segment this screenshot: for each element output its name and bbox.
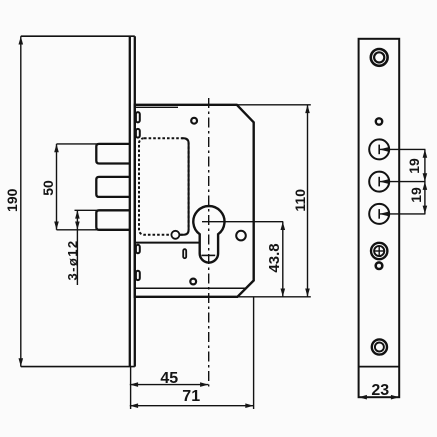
bolt hole H1 centre arrow bbox=[379, 147, 388, 152]
small hole upper bbox=[376, 118, 382, 124]
keyhole ring with cross outer bbox=[371, 243, 387, 259]
dimension 43.8 bottom arrow bbox=[281, 289, 286, 297]
bolt hole H1 centre line bbox=[379, 148, 425, 150]
keyhole ring with cross inner bbox=[374, 246, 384, 256]
small slot near cylinder bbox=[183, 249, 186, 258]
dimension 190 line bbox=[20, 36, 22, 366]
right extension line below case bbox=[253, 297, 255, 409]
lock case inner top line bbox=[136, 106, 178, 108]
bolt tab B1 bbox=[96, 144, 130, 164]
screw hole bottom bbox=[190, 279, 196, 285]
dashed inner box solid right edge bbox=[180, 138, 189, 235]
bolt hole H3 bbox=[369, 204, 389, 224]
top extension line bbox=[21, 35, 135, 37]
faceplate strip right edge bbox=[134, 36, 136, 366]
dimension 23 right arrow bbox=[391, 395, 399, 400]
small hole below keyhole bbox=[376, 262, 383, 269]
dimension 43.8 line bbox=[282, 222, 284, 297]
vertical centreline (dash-dot) bbox=[208, 98, 210, 387]
ring hole top inner bbox=[374, 52, 384, 62]
screw hole top bbox=[191, 118, 197, 124]
case lug L2 bbox=[136, 129, 140, 138]
dimension 45 line bbox=[130, 384, 209, 386]
dimension 19 top arrow bbox=[423, 149, 428, 157]
dimension 19 middle arrows bbox=[423, 173, 428, 181]
svg-text:23: 23 bbox=[371, 382, 389, 399]
bolt tab B2 bbox=[96, 177, 130, 197]
lock case bottom edge extension to 110 dim bbox=[237, 296, 310, 298]
case lug L1 bbox=[136, 112, 140, 122]
bolt hole H2 centre arrow bbox=[379, 179, 388, 184]
screw hole right bbox=[236, 231, 246, 241]
dimension 50 line bbox=[56, 144, 58, 230]
svg-text:71: 71 bbox=[182, 388, 200, 405]
dimension 71 right arrow bbox=[245, 403, 253, 408]
dashed inner box bbox=[139, 138, 189, 235]
faceplate strip left edge bbox=[129, 36, 131, 366]
bolt tab B3 top edge extension to leader bbox=[75, 209, 100, 211]
keyhole cross horizontal bbox=[374, 250, 384, 252]
dimension 45 right arrow bbox=[200, 382, 208, 387]
left extension line below faceplate bbox=[130, 367, 132, 409]
bolt hole H2 bbox=[369, 172, 389, 192]
ring hole bottom inner bbox=[375, 343, 384, 352]
leader 3-d12 down arrow bbox=[75, 222, 80, 230]
case lug L3 bbox=[136, 245, 140, 254]
case lug L4 bbox=[136, 271, 140, 280]
dimension 190 bottom arrow bbox=[19, 358, 24, 366]
bolt hole H3 centre arrow bbox=[379, 212, 388, 217]
dimension 71 left arrow bbox=[130, 403, 138, 408]
side plate divider line bbox=[359, 366, 400, 368]
svg-text:19: 19 bbox=[406, 158, 422, 174]
lock case outline bbox=[135, 105, 254, 297]
svg-text:3-ø12: 3-ø12 bbox=[65, 240, 80, 281]
bolt hole H3 centre tick bbox=[378, 209, 380, 219]
bolt tab B3 bbox=[96, 210, 130, 230]
svg-text:43.8: 43.8 bbox=[266, 243, 283, 272]
svg-text:190: 190 bbox=[4, 188, 20, 212]
dimension 50 top arrow bbox=[54, 144, 59, 152]
dimension 110 bottom arrow bbox=[305, 289, 310, 297]
cylinder centre cross horizontal / 43.8 extension bbox=[202, 221, 283, 223]
dimension 19 pair line bbox=[424, 149, 426, 214]
dimension 110 top arrow bbox=[305, 105, 310, 113]
ring hole bottom outer bbox=[372, 339, 387, 354]
dimension 71 line bbox=[130, 405, 254, 407]
bolt hole H3 centre line bbox=[379, 213, 425, 215]
lock case top edge extension to 110 dim bbox=[237, 104, 311, 106]
bolt hole H2 centre tick bbox=[378, 177, 380, 187]
svg-text:19: 19 bbox=[408, 187, 424, 203]
lower cross bar bbox=[202, 254, 216, 256]
euro cylinder hole bbox=[193, 206, 224, 263]
dimension 190 top arrow bbox=[19, 36, 24, 44]
keyhole cross vertical bbox=[378, 246, 380, 256]
bottom extension line bbox=[21, 366, 135, 368]
svg-text:110: 110 bbox=[292, 189, 308, 212]
ring hole top outer bbox=[371, 49, 388, 66]
dimension 43.8 top arrow bbox=[281, 222, 286, 230]
dimension 50 bottom arrow bbox=[54, 222, 59, 230]
small circle on box bottom edge bbox=[171, 231, 179, 239]
dimension 19 bottom arrow bbox=[423, 206, 428, 214]
dimension 45 left arrow bbox=[130, 382, 138, 387]
dimension 23 left arrow bbox=[359, 395, 367, 400]
bolt tab B1 top edge extension to 50 dim bbox=[57, 143, 100, 145]
bolt hole H1 centre tick bbox=[378, 145, 380, 155]
bolt hole H1 bbox=[369, 139, 389, 159]
internal horizontal line bbox=[136, 242, 199, 244]
bolt hole H2 centre line bbox=[379, 181, 425, 183]
svg-text:50: 50 bbox=[40, 180, 56, 196]
svg-text:45: 45 bbox=[160, 370, 178, 387]
dimension 110 line bbox=[307, 105, 309, 297]
lock case inner bottom line bbox=[136, 287, 246, 289]
leader 3-d12 vertical line bbox=[76, 210, 78, 285]
bolt tab B3 bottom edge extension to 50 dim bbox=[57, 229, 100, 231]
side plate outline bbox=[359, 39, 400, 397]
leader 3-d12 up arrow bbox=[75, 210, 80, 218]
